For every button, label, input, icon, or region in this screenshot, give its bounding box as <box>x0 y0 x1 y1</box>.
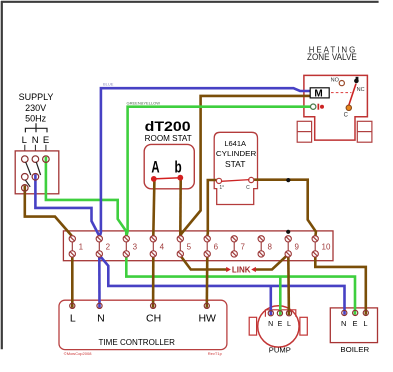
time controller box <box>59 300 227 349</box>
svg-text:E: E <box>43 135 49 146</box>
wire: supply N blue to terminal 2 <box>35 174 99 235</box>
zone valve right flange <box>357 121 372 142</box>
svg-text:50Hz: 50Hz <box>25 114 47 124</box>
boiler box <box>330 308 377 343</box>
terminal 3 <box>123 236 137 257</box>
svg-text:9: 9 <box>295 243 300 252</box>
svg-text:10: 10 <box>322 243 331 252</box>
supply L N E labels <box>22 135 50 146</box>
svg-text:dT200: dT200 <box>145 118 191 134</box>
pump body <box>249 306 307 347</box>
svg-text:2: 2 <box>106 243 111 252</box>
cylinder stat label <box>216 139 257 169</box>
svg-text:M: M <box>314 88 322 99</box>
wire: supply L brown to terminal 1 <box>25 186 72 236</box>
svg-text:NO: NO <box>331 77 340 83</box>
controller terminal labels <box>70 312 216 324</box>
boiler terminals <box>342 310 369 315</box>
svg-text:L641A: L641A <box>224 139 246 148</box>
svg-text:N: N <box>268 321 273 328</box>
zone valve body <box>304 75 368 140</box>
terminal 2 <box>96 236 110 257</box>
wire: link terminal 5 to terminal 9 <box>180 255 288 270</box>
terminal 10 <box>312 236 331 257</box>
wire: blue branch to pump N <box>269 286 272 315</box>
pump terminals <box>268 311 291 316</box>
wire: valve blue to terminal 2 <box>100 88 311 237</box>
controller terminals <box>70 303 210 308</box>
wire: terminal 10 to boiler L <box>315 254 366 315</box>
wire: valve earth green to terminal 3 <box>127 107 314 236</box>
svg-text:N: N <box>97 312 105 324</box>
cylinder stat switch arm <box>221 180 250 182</box>
heating zone valve label <box>307 46 357 63</box>
supply terminals <box>22 156 50 191</box>
svg-text:LINK: LINK <box>232 266 251 275</box>
svg-text:TIME CONTROLLER: TIME CONTROLLER <box>99 337 176 347</box>
svg-text:E: E <box>352 319 357 328</box>
zone valve M box <box>310 88 329 98</box>
room stat terminals <box>151 175 183 182</box>
junction dot above terminal 9 <box>286 230 290 234</box>
terminal 4 <box>150 236 164 257</box>
supply bracket <box>25 123 47 132</box>
room stat box <box>144 144 194 188</box>
svg-text:3: 3 <box>133 243 138 252</box>
svg-text:230V: 230V <box>25 103 46 113</box>
terminal 1 <box>69 236 83 257</box>
svg-text:L: L <box>363 319 367 328</box>
svg-text:GREEN&YELLOW: GREEN&YELLOW <box>127 101 161 106</box>
svg-text:SUPPLY: SUPPLY <box>19 92 54 102</box>
wire: cyl stat 1 to terminal 6 <box>207 180 219 237</box>
zone valve C terminal <box>346 105 351 110</box>
wire: terminal 1 to controller L <box>71 254 74 308</box>
terminal 6 <box>204 236 219 257</box>
svg-text:NC: NC <box>357 87 365 93</box>
wire: terminal 2 blue bus to pump and boiler N <box>100 256 345 315</box>
supply label <box>19 92 54 124</box>
svg-text:b: b <box>175 159 182 177</box>
terminal 8 <box>258 236 272 257</box>
wire: room stat b to terminal 5 <box>179 179 182 237</box>
svg-text:1: 1 <box>79 243 84 252</box>
svg-text:6: 6 <box>214 243 219 252</box>
svg-text:C: C <box>344 113 349 119</box>
junction dot on cyl stat C wire <box>286 178 290 182</box>
pump terminal labels <box>268 321 291 328</box>
supply box <box>15 151 59 194</box>
svg-text:N: N <box>341 319 346 328</box>
wire: terminal 9 to pump L <box>287 254 290 315</box>
room stat label <box>145 118 192 143</box>
wire: room stat A to terminal 4 <box>153 180 154 237</box>
svg-text:STAT: STAT <box>225 159 245 169</box>
svg-text:8: 8 <box>268 243 273 252</box>
svg-text:N: N <box>32 135 39 146</box>
terminal 5 <box>177 236 191 257</box>
zone valve left flange <box>297 121 311 142</box>
wire: terminal 2 to controller N <box>98 254 101 308</box>
svg-text:RevT1p: RevT1p <box>208 351 223 356</box>
svg-text:L: L <box>287 321 291 328</box>
link arrows <box>226 267 256 272</box>
wire: valve motor brown to terminal 5 <box>180 96 310 237</box>
svg-text:L: L <box>22 135 27 146</box>
zone valve earth terminal <box>311 104 316 109</box>
svg-text:BOILER: BOILER <box>340 345 369 354</box>
svg-text:5: 5 <box>187 243 192 252</box>
svg-text:©MowCop2008: ©MowCop2008 <box>64 351 92 356</box>
zone valve dashed link <box>331 92 351 94</box>
svg-text:L: L <box>70 312 76 324</box>
supply switch arms <box>25 162 40 187</box>
svg-text:C: C <box>246 185 250 191</box>
svg-text:A: A <box>151 159 159 177</box>
supply terminal leads <box>25 145 46 151</box>
svg-text:1°: 1° <box>219 185 224 191</box>
cylinder stat box <box>214 132 257 204</box>
wire: green branch to pump E <box>279 277 282 316</box>
svg-text:BLUE: BLUE <box>103 82 114 87</box>
svg-text:CYLINDER: CYLINDER <box>216 149 257 158</box>
svg-text:7: 7 <box>241 243 246 252</box>
wire: terminal 3 green bus to pump and boiler E <box>126 254 355 315</box>
zone valve NC terminal <box>354 79 359 84</box>
wire: terminal 6 to controller HW <box>206 254 209 308</box>
terminal 7 <box>231 236 245 257</box>
terminal 9 <box>285 236 299 257</box>
wire: supply E green to terminal 3 <box>46 157 126 236</box>
room stat switch arm <box>154 178 181 179</box>
boiler terminal labels <box>341 319 367 328</box>
svg-text:CH: CH <box>146 312 161 324</box>
wire: terminal 4 to controller CH <box>152 254 155 308</box>
svg-text:E: E <box>278 321 283 328</box>
svg-text:HW: HW <box>198 312 216 324</box>
zone valve NO terminal <box>339 81 344 86</box>
zone valve switch arm <box>349 84 356 106</box>
svg-text:PUMP: PUMP <box>269 345 291 354</box>
terminal strip <box>63 231 333 261</box>
svg-text:ZONE VALVE: ZONE VALVE <box>307 52 357 62</box>
cylinder stat terminals <box>216 177 253 183</box>
svg-text:ROOM STAT: ROOM STAT <box>145 134 192 143</box>
svg-text:4: 4 <box>160 243 165 252</box>
wire: cyl stat C to terminal 10 <box>251 180 316 237</box>
